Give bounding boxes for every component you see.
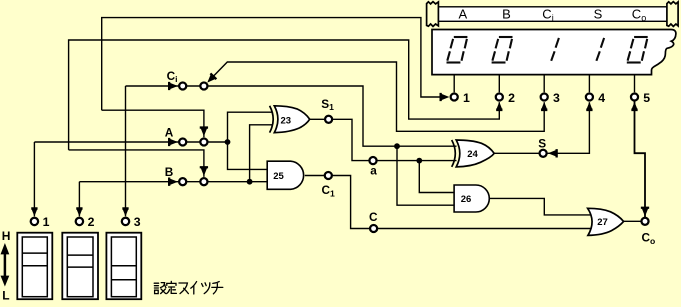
seven-segment digit 0 (B): [492, 37, 513, 63]
text 設定スイッチ (vector strokes): [154, 281, 223, 294]
wire display stub 2: [498, 76, 500, 93]
wire display stub 5: [634, 76, 636, 93]
arrow down into B second circle: [200, 166, 208, 176]
HL double arrow: [1, 243, 10, 287]
junction dot B: [247, 179, 253, 185]
wire AND25 output to C1: [305, 175, 325, 177]
switch circle 3: [122, 218, 129, 225]
svg-text:A: A: [458, 7, 467, 22]
wire C1 to node C: [332, 176, 370, 229]
kanji 設: [154, 282, 158, 284]
node circle Co: [641, 218, 648, 225]
arrow into Ci first circle: [168, 82, 178, 90]
terminal circle 4: [586, 93, 593, 100]
terminal circle 3: [541, 93, 548, 100]
wire OR27 output to Co node: [624, 220, 642, 222]
wire XOR23 output to S1: [310, 118, 326, 120]
svg-text:2: 2: [508, 91, 515, 105]
wire XOR24 output to S node: [494, 152, 539, 154]
arrow into A first circle: [168, 138, 178, 146]
wire A2 drop: [102, 110, 204, 137]
wire S node to terminal4: [547, 102, 589, 153]
wire Ci row to gate24 top input: [126, 86, 457, 146]
node circle S1: [325, 116, 332, 123]
wire B row into AND25: [79, 181, 268, 183]
wire display stub 3: [543, 76, 545, 93]
wire display stub 1: [453, 76, 455, 93]
switch circle 2: [76, 218, 83, 225]
svg-text:26: 26: [461, 194, 472, 205]
svg-text:3: 3: [134, 215, 141, 229]
svg-text:2: 2: [88, 215, 95, 229]
arrow into B first circle: [168, 178, 178, 186]
svg-text:S: S: [538, 137, 546, 151]
wire B-node to terminal2 rail: [69, 40, 500, 150]
node circle S: [540, 150, 547, 157]
katakana イ: [191, 282, 197, 289]
seven-segment digit 1 (Ci): [551, 38, 559, 61]
XOR gate 24: [452, 140, 495, 167]
arrow up into terminal 4: [586, 102, 592, 111]
katakana チ: [213, 282, 219, 284]
node circle C1: [325, 172, 332, 179]
banner scroll end left: [427, 2, 439, 27]
svg-text:24: 24: [467, 149, 478, 160]
switch 3 body: [106, 233, 141, 300]
svg-text:25: 25: [273, 171, 284, 182]
arrow down into Co node: [641, 207, 649, 217]
svg-text:5: 5: [643, 91, 650, 105]
wire S1 to node a: [332, 119, 370, 160]
wire a-junction to gate26 top input: [419, 161, 455, 193]
node circle A-2: [200, 138, 207, 145]
seven-segment digit 0 (Co): [627, 37, 648, 63]
svg-text:3: 3: [553, 91, 560, 105]
arrow down into A second circle: [200, 126, 208, 136]
banner scroll end right: [667, 2, 678, 27]
wire node a to gate24 bottom input: [377, 160, 457, 162]
arrow diagonal into Ci second circle: [204, 73, 217, 86]
node circle B-2: [200, 178, 207, 185]
switch circle 1: [31, 218, 38, 225]
svg-text:L: L: [2, 288, 9, 302]
display panel with torn right edge: [432, 30, 676, 75]
node circle A-1: [179, 138, 186, 145]
node circle B-1: [179, 178, 186, 185]
wire A row: [34, 141, 227, 143]
katakana ス: [179, 283, 187, 294]
junction dot node-a rail: [416, 158, 422, 164]
switch 1 body: [17, 233, 52, 300]
kanji 定: [170, 281, 172, 283]
svg-text:1: 1: [463, 91, 470, 105]
switch 2 body: [62, 233, 98, 300]
katakana ッ: [202, 284, 203, 287]
svg-text:23: 23: [281, 116, 292, 127]
svg-text:A: A: [165, 125, 174, 139]
svg-text:H: H: [2, 229, 11, 243]
terminal circle 1: [451, 93, 458, 100]
wire B vertical to XOR23: [250, 125, 272, 182]
wire AND26 output to OR27 top input: [489, 198, 594, 215]
node circle Ci-1: [179, 82, 186, 89]
wire B2 drop: [69, 150, 204, 177]
svg-text:B: B: [165, 165, 174, 179]
banner band: [432, 7, 677, 21]
AND gate 26: [454, 185, 489, 212]
seven-segment digit 1 (S): [596, 38, 604, 61]
svg-text:C: C: [369, 210, 378, 224]
arrow down into switch2 circle: [76, 207, 82, 216]
seven-segment digit 0 (A): [447, 37, 468, 63]
svg-text:4: 4: [598, 91, 605, 105]
wire switch2 drop: [78, 182, 80, 217]
arrow up into terminal 3: [541, 102, 547, 111]
arrow left into S node: [548, 149, 558, 157]
AND gate 25: [267, 161, 303, 189]
node circle a: [369, 157, 376, 164]
svg-text:S: S: [594, 7, 603, 22]
terminal circle 2: [496, 93, 503, 100]
wire node C to OR27 bottom input: [377, 228, 594, 230]
wire display stub 4: [588, 76, 590, 93]
wire Ci switch diagonal to terminal3 rail: [209, 62, 545, 131]
OR gate 27: [588, 208, 624, 235]
junction dot gate24 top rail: [394, 143, 400, 149]
svg-text:27: 27: [597, 217, 608, 228]
XOR gate 23: [270, 106, 310, 133]
arrow down into switch1 circle: [31, 207, 37, 216]
arrow right into terminal 1: [440, 93, 450, 101]
svg-text:a: a: [370, 163, 377, 177]
wire A vertical to XOR23 and AND25: [228, 112, 273, 169]
node circle Ci-2: [200, 82, 207, 89]
arrow up into terminal 5: [631, 102, 637, 111]
svg-text:1: 1: [43, 215, 50, 229]
wire switch1 drop: [33, 142, 35, 216]
svg-text:B: B: [502, 7, 511, 22]
wire A-node to terminal1 rail: [102, 18, 447, 111]
wire switch3 drop: [125, 86, 127, 216]
arrow up into terminal 2: [496, 102, 502, 111]
node circle C: [370, 225, 377, 232]
arrow down into switch3 circle: [122, 207, 128, 216]
wire terminal5 to Co node: [635, 101, 646, 217]
junction dot A: [225, 139, 231, 145]
terminal circle 5: [631, 93, 638, 100]
wire ci-junction to gate26 bottom input: [397, 146, 455, 205]
